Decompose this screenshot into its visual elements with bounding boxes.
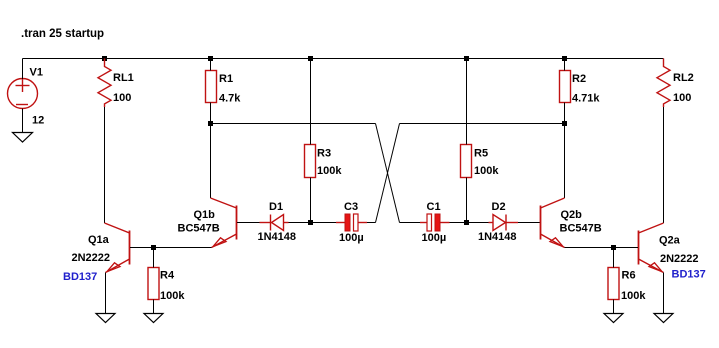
svg-text:2N2222: 2N2222	[660, 253, 699, 265]
svg-text:4.71k: 4.71k	[572, 93, 600, 105]
node dot R1 bottom	[208, 121, 213, 126]
svg-text:12: 12	[32, 115, 44, 127]
node dot R5 bottom	[464, 220, 469, 225]
wire V1 bottom	[22, 109, 24, 133]
wire Q1a emitter down	[105, 273, 107, 314]
wire R6 top	[613, 248, 615, 268]
svg-text:100k: 100k	[474, 165, 499, 177]
node dot top rail at R1	[208, 56, 213, 61]
svg-text:R6: R6	[622, 270, 636, 282]
svg-text:100k: 100k	[621, 290, 646, 302]
wire R2 top	[564, 59, 566, 71]
wire R5 bottom column	[466, 178, 468, 223]
svg-text:Q2a: Q2a	[659, 235, 681, 247]
svg-text:Q2b: Q2b	[561, 209, 583, 221]
wire R2 bottom	[564, 103, 566, 124]
wire top rail VCC	[23, 58, 664, 60]
resistor RL1 (zigzag)	[98, 59, 111, 108]
svg-text:1N4148: 1N4148	[258, 231, 297, 243]
svg-text:1N4148: 1N4148	[478, 231, 517, 243]
transistor Q2b (BC547B, npn facing right)	[541, 198, 565, 248]
wire R3 bottom column	[310, 178, 312, 223]
wire C3 right to cross	[367, 222, 376, 224]
resistor RL2 (zigzag)	[657, 59, 670, 108]
resistor R5 (box)	[461, 145, 472, 178]
wire R4 bottom	[153, 300, 155, 314]
wire cross diagonal right-top to left-bottom	[376, 124, 400, 223]
resistor R2 (box)	[560, 71, 571, 103]
svg-text:V1: V1	[30, 67, 43, 79]
wire R1 bottom	[210, 103, 212, 124]
node dot top rail at R5	[464, 56, 469, 61]
wire D2 to Q2b base	[518, 222, 540, 224]
wire Q1a base to node	[130, 247, 154, 249]
ground under Q1a emitter	[96, 314, 115, 323]
wire R3 top column	[310, 59, 312, 145]
node dot top rail at R3	[308, 56, 313, 61]
wire Q1b collector column	[210, 124, 212, 199]
ground under R4	[144, 314, 163, 323]
wire R6 bottom	[613, 300, 615, 314]
wire C1 right to R5 node to D2	[450, 222, 489, 224]
svg-text:BC547B: BC547B	[178, 223, 220, 235]
node dot R2 bottom	[562, 121, 567, 126]
svg-text:2N2222: 2N2222	[72, 252, 111, 264]
wire cross rail right	[400, 123, 565, 125]
wire cross diagonal left-top to right-bottom	[376, 124, 400, 223]
svg-text:100k: 100k	[317, 165, 342, 177]
wire Q2a emitter down	[663, 273, 665, 314]
wire cross to C1 left	[400, 222, 421, 224]
transistor Q2a (2N2222, npn facing right)	[639, 223, 664, 273]
svg-text:100µ: 100µ	[422, 232, 447, 244]
wire RL1 bottom to Q1a collector	[104, 107, 106, 223]
resistor R3 (box)	[305, 145, 316, 178]
svg-text:100: 100	[673, 92, 691, 104]
node dot R3 bottom	[308, 220, 313, 225]
svg-text:.tran 25 startup: .tran 25 startup	[21, 28, 104, 40]
svg-text:C1: C1	[427, 201, 441, 213]
resistor R4 (box)	[148, 268, 159, 300]
svg-text:BD137: BD137	[63, 271, 97, 283]
svg-text:100µ: 100µ	[339, 232, 364, 244]
transistor Q1a (2N2222, npn facing left)	[105, 223, 130, 273]
svg-text:BD137: BD137	[672, 269, 706, 281]
wire R5 top column	[466, 59, 468, 145]
wire Q2b collector column	[564, 124, 566, 199]
capacitor C1 (polarized, 100u)	[420, 214, 450, 231]
wire RL2 bottom to Q2a collector	[663, 107, 665, 223]
svg-text:4.7k: 4.7k	[219, 93, 241, 105]
ground under V1	[13, 133, 33, 143]
wire cross rail left	[211, 123, 376, 125]
wire Q2b emitter to node	[565, 247, 614, 249]
node dot top rail at RL1	[102, 56, 107, 61]
wire Q1b emitter to node	[154, 247, 212, 249]
svg-text:R3: R3	[317, 148, 331, 160]
svg-text:D2: D2	[492, 201, 506, 213]
diode D2 (1N4148, pointing right)	[489, 215, 519, 231]
svg-text:R2: R2	[572, 73, 586, 85]
wire V1 top	[22, 59, 24, 80]
svg-text:Q1b: Q1b	[194, 209, 216, 221]
node dot top rail at R2	[562, 56, 567, 61]
svg-text:R5: R5	[474, 148, 488, 160]
node dot Q2a base / R6	[611, 245, 616, 250]
transistor Q1b (BC547B, npn facing left)	[211, 198, 237, 248]
node dot Q1a base / R4	[151, 245, 156, 250]
svg-text:R4: R4	[160, 270, 175, 282]
wire R4 top	[153, 248, 155, 268]
resistor R1 (box)	[206, 71, 217, 103]
ground under R6	[604, 314, 623, 323]
svg-text:BC547B: BC547B	[560, 223, 602, 235]
diode D1 (1N4148, pointing left)	[260, 215, 289, 231]
svg-text:R1: R1	[219, 73, 233, 85]
svg-text:100k: 100k	[160, 290, 185, 302]
svg-text:C3: C3	[344, 201, 358, 213]
svg-text:RL1: RL1	[113, 72, 134, 84]
wire R1 top	[210, 59, 212, 71]
resistor R6 (box)	[608, 268, 619, 300]
capacitor C3 (polarized, 100u)	[336, 214, 367, 231]
svg-text:RL2: RL2	[673, 72, 694, 84]
svg-text:100: 100	[113, 92, 131, 104]
wire Q1b base	[237, 222, 260, 224]
svg-text:D1: D1	[269, 201, 283, 213]
ground under Q2a emitter	[654, 314, 673, 323]
wire D1 anode to R3 node to C3	[289, 222, 337, 224]
wire Q2a base to node	[614, 247, 639, 249]
svg-text:Q1a: Q1a	[88, 234, 110, 246]
voltage source V1	[8, 79, 38, 109]
